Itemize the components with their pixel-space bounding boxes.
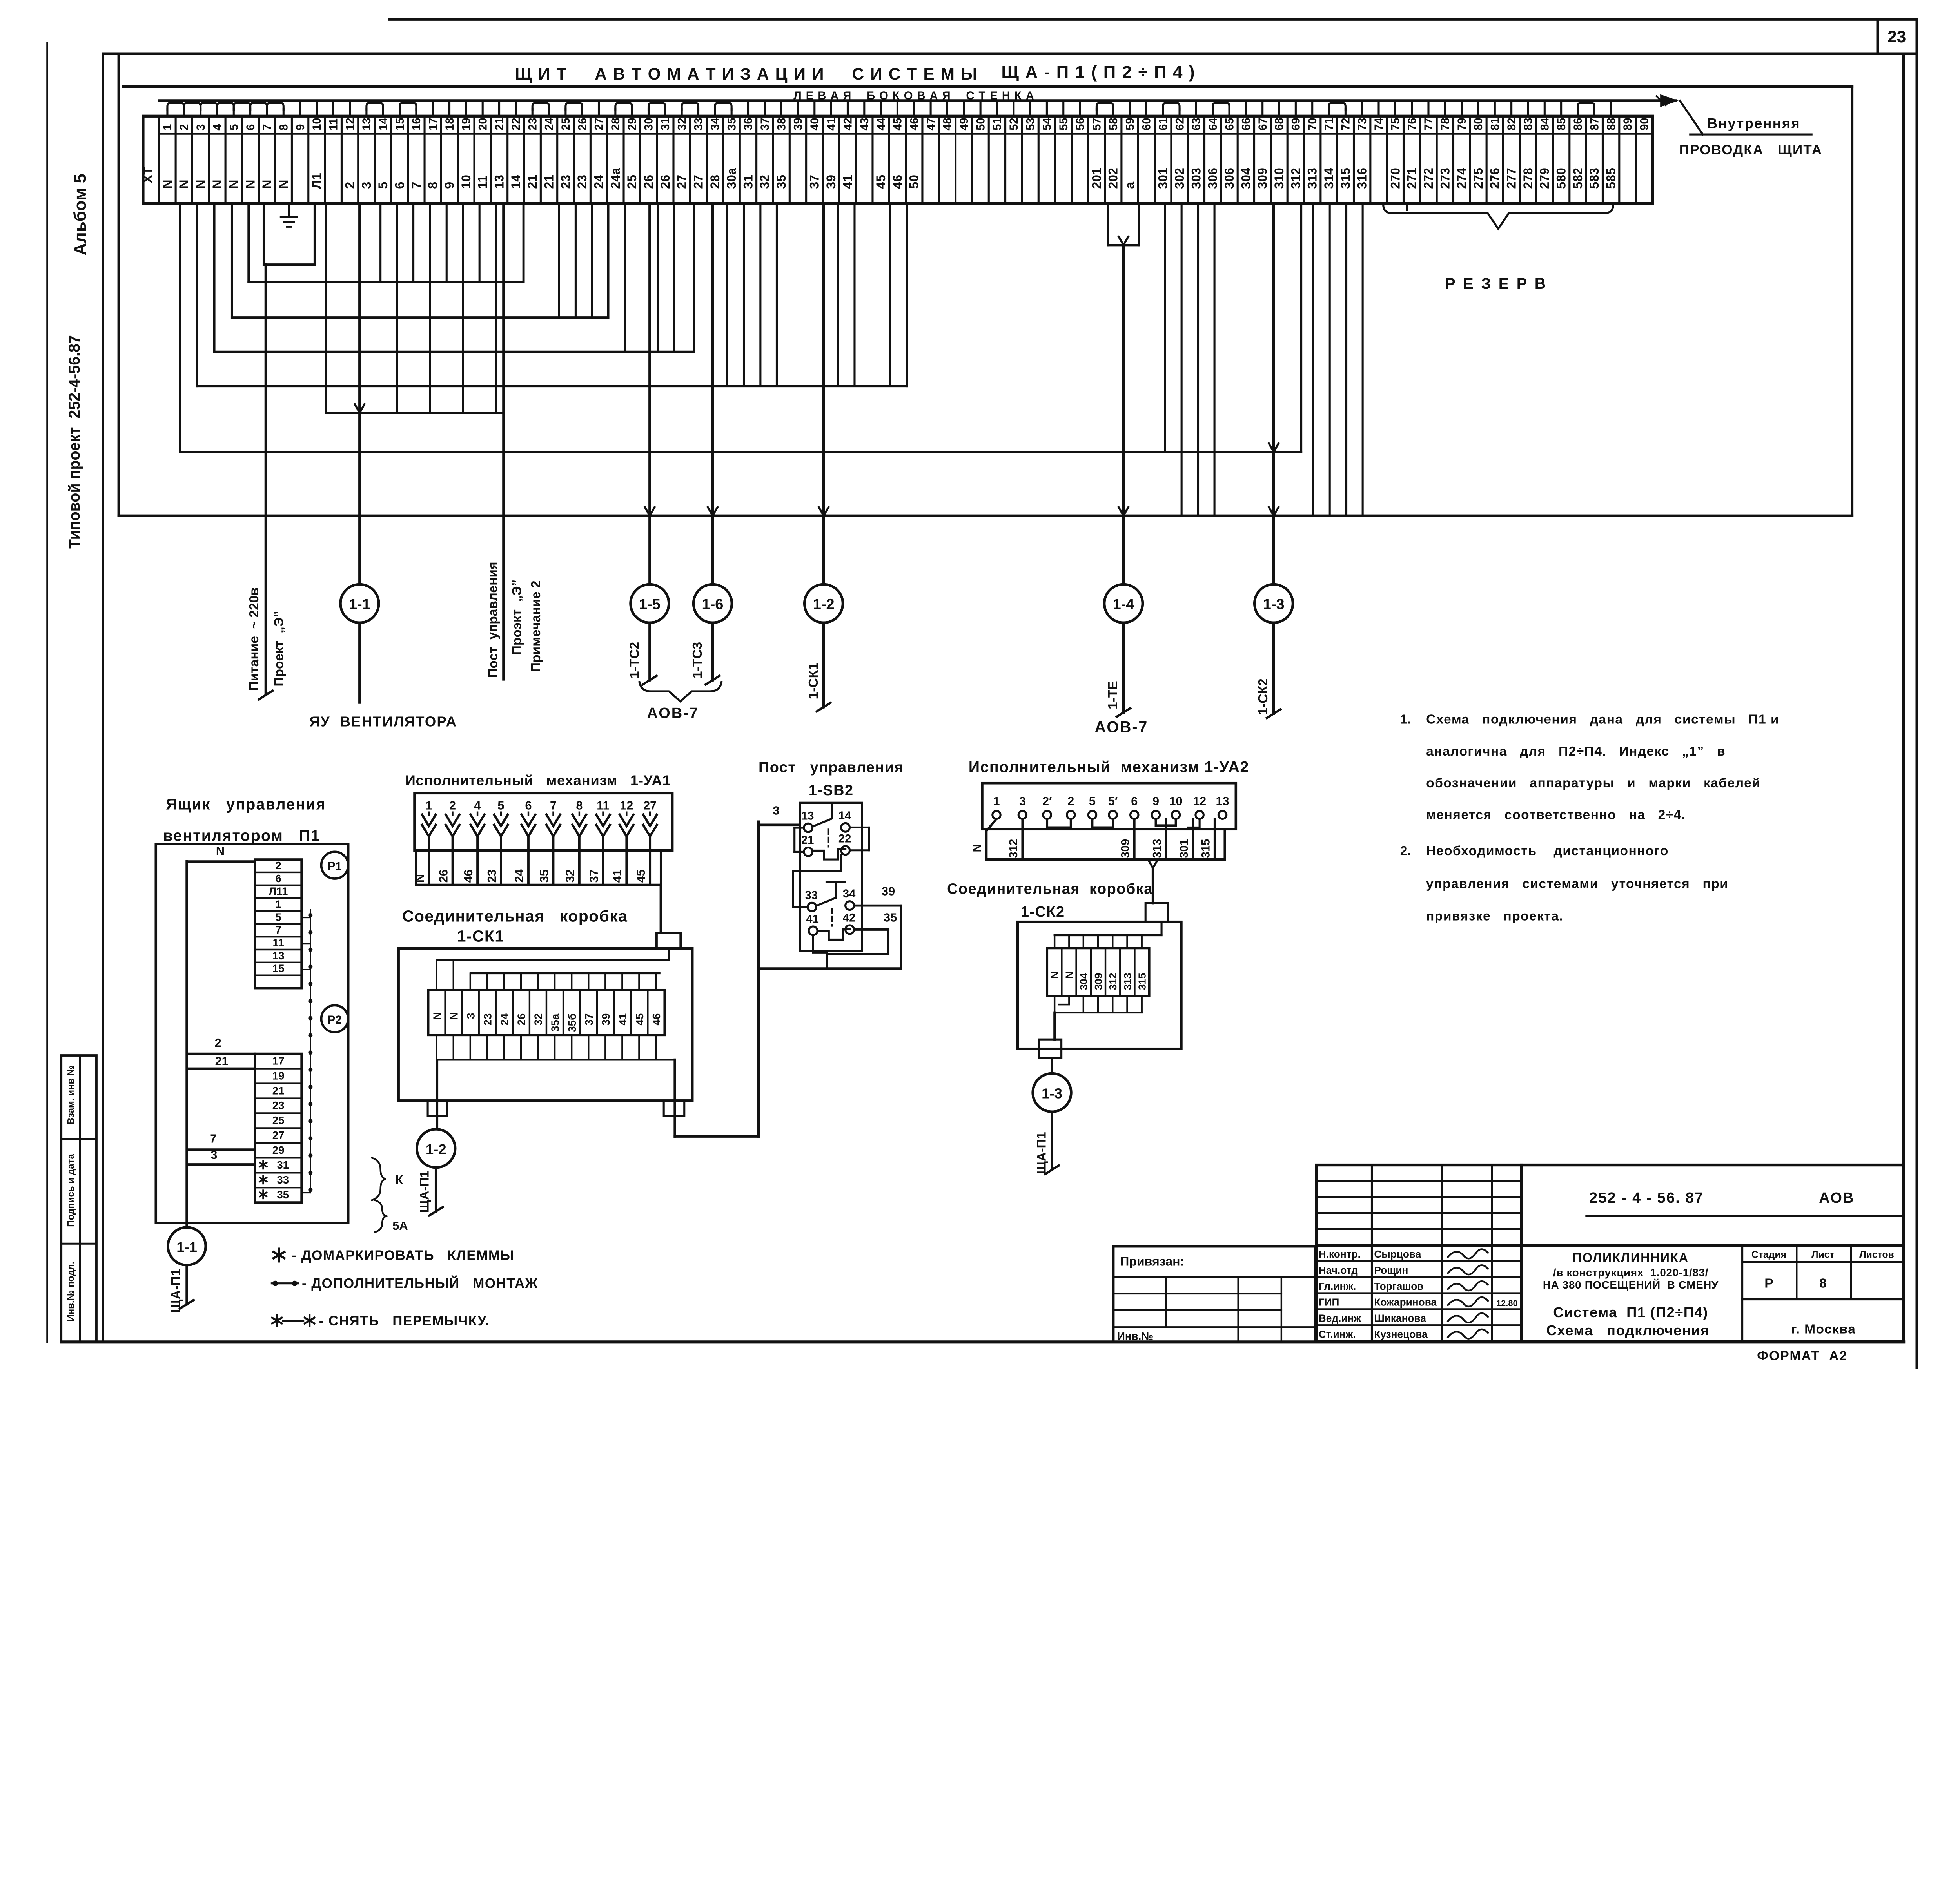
svg-text:АОВ-7: АОВ-7 <box>647 705 699 721</box>
terminal 7 <box>259 116 275 203</box>
svg-text:316: 316 <box>1355 168 1369 189</box>
title block names <box>1319 1248 1518 1340</box>
svg-text:Р Е З Е Р В: Р Е З Е Р В <box>1445 275 1547 292</box>
SB2 contact 42 <box>843 912 855 934</box>
terminal 18 <box>441 116 457 203</box>
svg-text:17: 17 <box>272 1055 285 1067</box>
wires terminals 29-32 <box>625 204 674 352</box>
svg-text:46: 46 <box>650 1013 662 1026</box>
svg-text:35: 35 <box>774 175 788 189</box>
title block stadia list listov <box>1742 1245 1904 1341</box>
label vnutrennyaya provodka <box>1679 115 1822 158</box>
label 3 <box>773 804 779 818</box>
UA2 wire 315 <box>1200 819 1215 859</box>
svg-text:1.: 1. <box>1400 712 1411 727</box>
svg-text:313: 313 <box>1122 973 1133 990</box>
svg-text:55: 55 <box>1058 118 1070 130</box>
svg-text:24: 24 <box>592 175 606 189</box>
UA2 jumper 5-5p <box>1092 819 1113 827</box>
svg-text:301: 301 <box>1178 839 1191 858</box>
svg-text:77: 77 <box>1423 118 1435 130</box>
svg-text:8: 8 <box>1819 1276 1827 1291</box>
svg-text:4: 4 <box>211 124 224 131</box>
svg-text:Проэкт „Э”: Проэкт „Э” <box>510 580 524 655</box>
svg-text:313: 313 <box>1151 839 1164 858</box>
svg-text:32: 32 <box>532 1013 544 1026</box>
UA1 wire 45 <box>634 836 650 885</box>
UA2 terminal 2′ <box>1042 794 1052 819</box>
UA2 terminal 5′ <box>1108 794 1118 819</box>
svg-text:41: 41 <box>840 175 855 189</box>
svg-text:обозначении аппаратуры и: обозначении аппаратуры и марки кабелей <box>1426 776 1760 790</box>
svg-text:N: N <box>160 179 174 189</box>
svg-text:N: N <box>971 844 984 852</box>
UA2 jumper 9-10 <box>1156 819 1176 825</box>
circle 1-6 <box>693 584 732 623</box>
UA1 wire 46 <box>462 836 477 885</box>
CK1 stubs below strip <box>437 1035 675 1060</box>
svg-text:585: 585 <box>1604 168 1618 189</box>
stamp label Podpis i data <box>65 1154 76 1227</box>
terminal 12 <box>341 116 358 203</box>
terminal 21 <box>491 116 507 203</box>
svg-text:313: 313 <box>1305 168 1319 189</box>
svg-text:N: N <box>177 179 191 189</box>
svg-text:4: 4 <box>474 799 481 812</box>
svg-text:5: 5 <box>376 182 390 189</box>
svg-text:315: 315 <box>1338 168 1352 189</box>
terminal 84 <box>1536 116 1553 203</box>
svg-text:39: 39 <box>792 118 805 130</box>
UA2 terminal 2 <box>1067 794 1075 819</box>
terminal 80 <box>1470 116 1486 203</box>
terminal 70 <box>1304 116 1321 203</box>
svg-text:Типовой проект 252-4-56.87: Типовой проект 252-4-56.87 <box>66 335 83 549</box>
svg-text:312: 312 <box>1289 168 1303 189</box>
terminal 24 <box>541 116 557 203</box>
svg-text:23: 23 <box>1887 27 1906 46</box>
terminal 68 <box>1271 116 1287 203</box>
terminal strip XT outline <box>143 116 1653 203</box>
svg-text:привязке проекта.: привязке проекта. <box>1426 909 1563 924</box>
svg-text:202: 202 <box>1106 168 1120 189</box>
svg-text:2.: 2. <box>1400 844 1411 858</box>
terminal 22 <box>508 116 524 203</box>
UA2 jumper 12 hook <box>1188 819 1200 827</box>
svg-text:Ящик управления: Ящик управления <box>166 796 326 813</box>
svg-text:271: 271 <box>1405 168 1419 189</box>
UA1 terminal 6 <box>521 799 535 836</box>
svg-text:277: 277 <box>1504 168 1519 189</box>
svg-text:583: 583 <box>1587 168 1601 189</box>
margin text Album 5 <box>71 174 90 255</box>
ground symbol <box>281 204 297 227</box>
svg-text:89: 89 <box>1622 118 1634 130</box>
wire from terminal 3 <box>196 204 199 386</box>
wires terminals 62-65 <box>1165 204 1214 516</box>
svg-text:2: 2 <box>1067 794 1074 808</box>
box yashik upravleniya outline <box>156 844 348 1223</box>
svg-text:Гл.инж.: Гл.инж. <box>1319 1280 1356 1292</box>
svg-text:34: 34 <box>709 118 722 131</box>
svg-text:45: 45 <box>874 175 888 189</box>
svg-text:22: 22 <box>838 832 851 845</box>
terminal 26 <box>574 116 590 203</box>
UA1 wire 32 <box>564 836 579 885</box>
legend domarkirovat klemmy <box>274 1248 515 1263</box>
svg-text:2: 2 <box>449 799 456 812</box>
svg-text:Стадия: Стадия <box>1751 1250 1786 1260</box>
legend snyat peremychku <box>272 1313 489 1329</box>
svg-text:90: 90 <box>1638 118 1651 130</box>
svg-text:71: 71 <box>1323 118 1336 130</box>
wires terminals 25-27 <box>559 204 592 317</box>
svg-text:26: 26 <box>576 118 589 130</box>
svg-text:312: 312 <box>1007 839 1020 858</box>
svg-text:Листов: Листов <box>1859 1250 1894 1260</box>
svg-text:Р1: Р1 <box>328 860 342 873</box>
svg-text:5: 5 <box>275 911 281 923</box>
svg-text:управления системами уточн: управления системами уточняется при <box>1426 877 1728 891</box>
svg-text:14: 14 <box>838 810 851 822</box>
svg-text:Подпись и дата: Подпись и дата <box>65 1154 76 1227</box>
cable 1-5 <box>643 204 657 685</box>
svg-text:20: 20 <box>477 118 489 130</box>
CK2 exit wire <box>1052 1013 1055 1073</box>
svg-text:Инв.№: Инв.№ <box>1117 1330 1153 1342</box>
svg-text:88: 88 <box>1605 118 1618 130</box>
terminal 3 <box>192 116 209 203</box>
svg-text:81: 81 <box>1489 118 1502 130</box>
svg-text:70: 70 <box>1307 118 1319 130</box>
terminal 50 <box>972 116 989 203</box>
panel bottom bus H9 <box>119 514 1852 517</box>
rezerv bracket <box>1383 201 1613 229</box>
box 1-CK2 <box>1018 922 1181 1049</box>
UA2 terminal 6 <box>1131 794 1138 819</box>
frame bottom border <box>61 1340 1904 1344</box>
svg-text:10: 10 <box>459 175 473 189</box>
svg-text:Привязан:: Привязан: <box>1120 1254 1184 1268</box>
svg-text:25: 25 <box>625 175 639 189</box>
svg-text:1: 1 <box>993 794 1000 808</box>
circle 1-5 <box>631 584 669 623</box>
svg-text:11: 11 <box>327 118 340 131</box>
svg-text:26: 26 <box>515 1013 528 1026</box>
svg-text:18: 18 <box>444 118 456 130</box>
svg-text:27: 27 <box>691 175 705 189</box>
SB2 contact symbol upper2 bridge <box>813 849 846 859</box>
svg-text:31: 31 <box>659 118 672 130</box>
svg-text:32: 32 <box>676 118 688 130</box>
terminal 19 <box>458 116 474 203</box>
svg-text:27: 27 <box>643 799 657 812</box>
svg-text:304: 304 <box>1078 973 1090 990</box>
svg-text:315: 315 <box>1200 839 1212 858</box>
collector H7 <box>326 204 503 413</box>
svg-text:а: а <box>1123 181 1137 189</box>
terminal block R1 rows <box>255 859 301 988</box>
svg-text:41: 41 <box>806 913 818 925</box>
margin text Tipovoy proekt <box>66 335 83 549</box>
UA1 terminal 4 <box>471 799 485 836</box>
SB2 contact 21 <box>801 834 814 856</box>
terminal strip XT label cell <box>141 116 159 203</box>
svg-text:5: 5 <box>228 124 240 131</box>
SB2 jumper 13-21 <box>795 828 804 852</box>
circle 1-2 bottom <box>417 1129 455 1167</box>
svg-text:Соединительная коробка: Соединительная коробка <box>402 907 628 925</box>
terminal 16 <box>408 116 425 203</box>
svg-text:302: 302 <box>1172 168 1187 189</box>
svg-text:46: 46 <box>908 118 921 130</box>
svg-text:ГИП: ГИП <box>1319 1296 1339 1308</box>
svg-text:74: 74 <box>1373 118 1385 131</box>
CK1 exit wire left <box>436 1060 439 1129</box>
CK2 stubs above strip <box>1054 922 1161 948</box>
svg-text:1-3: 1-3 <box>1263 596 1285 613</box>
svg-text:1-5: 1-5 <box>639 596 661 613</box>
terminal 11 <box>325 116 341 203</box>
terminal 14 <box>375 116 391 203</box>
svg-text:252 - 4 - 56. 87: 252 - 4 - 56. 87 <box>1589 1190 1704 1206</box>
svg-text:2: 2 <box>343 182 357 189</box>
wire from terminal 5 <box>230 204 234 317</box>
title block city <box>1791 1322 1856 1336</box>
legend dopolnitelny montazh <box>272 1275 538 1291</box>
svg-text:6: 6 <box>275 872 281 885</box>
svg-text:2′: 2′ <box>1042 794 1052 808</box>
svg-text:24: 24 <box>499 1013 511 1025</box>
svg-text:59: 59 <box>1124 118 1136 130</box>
svg-text:- СНЯТЬ ПЕРЕМЫЧКУ.: - СНЯТЬ ПЕРЕМЫЧКУ. <box>319 1313 490 1329</box>
svg-text:6: 6 <box>245 124 257 131</box>
UA2 terminal 9 <box>1152 794 1160 819</box>
svg-text:Пост управления: Пост управления <box>759 760 904 776</box>
svg-text:79: 79 <box>1456 118 1468 130</box>
terminal 59 <box>1122 116 1138 203</box>
svg-text:27: 27 <box>593 118 606 130</box>
terminal block R2 rows <box>255 1054 301 1203</box>
internal wiring bus line <box>160 96 1676 106</box>
wire 7 <box>187 1132 255 1150</box>
UA2 wire N <box>971 819 996 859</box>
format A2 label <box>1757 1349 1847 1363</box>
label YaU ventilyatora <box>310 714 457 730</box>
terminal 48 <box>939 116 955 203</box>
title block signature table <box>1316 1165 1521 1342</box>
svg-text:/в конструкциях 1.020-1/83/: /в конструкциях 1.020-1/83/ <box>1553 1266 1708 1278</box>
svg-text:I: I <box>1405 201 1408 214</box>
terminal 34 <box>707 116 723 203</box>
svg-text:37: 37 <box>583 1013 595 1026</box>
svg-text:N: N <box>1049 972 1060 979</box>
svg-text:- ДОПОЛНИТЕЛЬНЫЙ МОНТАЖ: - ДОПОЛНИТЕЛЬНЫЙ МОНТАЖ <box>302 1275 538 1291</box>
svg-text:26: 26 <box>641 175 655 189</box>
terminal jumper loops <box>167 103 1594 110</box>
svg-text:Схема подключения дана д: Схема подключения дана для системы П1 и <box>1426 712 1779 727</box>
title block top divider <box>1316 1244 1521 1247</box>
SB2 contact symbol lower2 bridge <box>817 929 849 939</box>
wire 3 <box>187 1148 255 1164</box>
CK1 top gland <box>657 933 681 948</box>
SB2 contact 34 <box>843 888 856 910</box>
svg-text:N: N <box>413 874 426 883</box>
title block signatures <box>1448 1249 1488 1338</box>
UA1 wire 26 <box>437 836 452 885</box>
svg-text:306: 306 <box>1206 168 1220 189</box>
collector H5 <box>214 204 694 352</box>
svg-text:N: N <box>210 179 224 189</box>
terminal 35 <box>723 116 740 203</box>
UA1 wire N <box>413 836 429 885</box>
wires terminals 71-74 <box>1313 204 1363 516</box>
svg-text:50: 50 <box>907 175 921 189</box>
svg-text:46: 46 <box>462 869 475 883</box>
title ispolnitelny mekhanizm 1-UA2 <box>969 759 1249 776</box>
svg-text:Схема подключения: Схема подключения <box>1546 1322 1709 1338</box>
svg-text:7: 7 <box>261 124 274 131</box>
svg-text:73: 73 <box>1356 118 1369 130</box>
svg-text:272: 272 <box>1421 168 1436 189</box>
svg-text:65: 65 <box>1223 118 1236 130</box>
svg-text:60: 60 <box>1141 118 1153 130</box>
title block code row <box>1521 1165 1904 1216</box>
svg-text:53: 53 <box>1024 118 1037 130</box>
SB2 jumper 22-33 <box>793 855 841 907</box>
UA2 jumper 2p-2 <box>1047 819 1071 827</box>
privyazan box <box>1113 1246 1315 1342</box>
UA2 terminal 12 <box>1193 794 1206 819</box>
svg-text:37: 37 <box>808 175 822 189</box>
cable 1-2 <box>817 204 831 711</box>
svg-text:1-3: 1-3 <box>1042 1086 1062 1102</box>
svg-text:19: 19 <box>272 1070 285 1082</box>
terminal 86 <box>1570 116 1586 203</box>
SB2 wire 41 loop <box>813 935 827 953</box>
collector H8 <box>180 204 1301 452</box>
svg-text:8: 8 <box>278 124 290 131</box>
CK1 to SB2 loop wire <box>675 822 800 1137</box>
UA1 wire 24 <box>513 836 528 885</box>
terminal 74 <box>1370 116 1387 203</box>
svg-text:35: 35 <box>277 1189 289 1201</box>
svg-text:24а: 24а <box>608 167 622 189</box>
label rezerv <box>1445 275 1547 292</box>
svg-text:11: 11 <box>597 799 609 812</box>
UA1 terminal 27 <box>643 799 657 836</box>
frame top band lines <box>103 20 1917 54</box>
svg-text:273: 273 <box>1438 168 1452 189</box>
UA2 terminal 1 <box>993 794 1000 819</box>
terminal 8 <box>275 116 292 203</box>
svg-text:310: 310 <box>1272 168 1286 189</box>
svg-text:41: 41 <box>611 869 624 883</box>
svg-text:5А: 5А <box>392 1219 408 1233</box>
svg-text:75: 75 <box>1390 118 1402 130</box>
svg-text:275: 275 <box>1471 168 1485 189</box>
UA2 terminal 3 <box>1018 794 1026 819</box>
terminal 28 <box>607 116 624 203</box>
CK2 stubs below strip <box>1054 996 1142 1012</box>
dotted additional montage line <box>301 910 312 1193</box>
svg-text:582: 582 <box>1571 168 1585 189</box>
svg-text:314: 314 <box>1322 168 1336 189</box>
svg-text:33: 33 <box>805 889 818 902</box>
terminal 17 <box>425 116 441 203</box>
svg-text:11: 11 <box>272 937 284 949</box>
svg-text:67: 67 <box>1257 118 1269 130</box>
svg-text:г. Москва: г. Москва <box>1791 1322 1856 1336</box>
svg-text:ЩА-П1: ЩА-П1 <box>417 1171 431 1213</box>
svg-text:3: 3 <box>1019 794 1026 808</box>
label 1-TE <box>1106 681 1120 709</box>
terminal 69 <box>1287 116 1304 203</box>
svg-text:11: 11 <box>475 176 490 189</box>
terminal 45 <box>889 116 906 203</box>
svg-text:23: 23 <box>559 175 573 189</box>
svg-text:45: 45 <box>633 1013 646 1026</box>
terminal 27 <box>590 116 607 203</box>
svg-text:41: 41 <box>825 118 838 130</box>
svg-text:7: 7 <box>409 182 423 189</box>
svg-text:87: 87 <box>1589 118 1601 130</box>
svg-text:6: 6 <box>1131 794 1138 808</box>
svg-text:Соединительная коробка: Соединительная коробка <box>947 881 1153 897</box>
title block system name <box>1546 1304 1709 1338</box>
svg-text:50: 50 <box>975 118 987 130</box>
terminal 62 <box>1171 116 1188 203</box>
svg-text:7: 7 <box>550 799 557 812</box>
wire from terminal 6 <box>247 204 250 282</box>
panel outline gamma <box>117 54 120 516</box>
svg-text:9: 9 <box>294 124 307 131</box>
svg-text:61: 61 <box>1157 118 1170 130</box>
terminal 66 <box>1238 116 1254 203</box>
UA1 wire 23 <box>485 836 501 885</box>
collector H4 <box>232 204 608 317</box>
title post upravleniya 1-SB2 <box>759 760 904 799</box>
wire 21 <box>187 1055 255 1069</box>
svg-text:25: 25 <box>560 118 572 130</box>
label 1-CK1 <box>806 663 821 699</box>
UA1 terminal 2 <box>446 799 459 836</box>
svg-text:21: 21 <box>215 1055 229 1068</box>
svg-text:вентилятором П1: вентилятором П1 <box>163 827 320 845</box>
svg-text:21: 21 <box>272 1084 285 1097</box>
terminal 83 <box>1520 116 1536 203</box>
terminal 82 <box>1503 116 1519 203</box>
svg-text:ЩА-П1: ЩА-П1 <box>169 1269 183 1312</box>
cable ShchA-P1 from 1-3 <box>1034 1112 1059 1174</box>
stamp column boxes <box>61 1055 96 1342</box>
UA2 bottom bus <box>986 829 1225 859</box>
svg-text:35а: 35а <box>549 1013 561 1032</box>
svg-text:27: 27 <box>675 175 689 189</box>
svg-text:меняется соответственно на: меняется соответственно на 2÷4. <box>1426 808 1686 822</box>
svg-text:43: 43 <box>858 118 871 130</box>
UA2 wire 312 <box>1007 819 1022 859</box>
svg-text:15: 15 <box>272 963 285 975</box>
svg-text:3: 3 <box>195 124 207 131</box>
svg-text:201: 201 <box>1089 168 1103 189</box>
svg-text:64: 64 <box>1207 118 1220 131</box>
terminal 47 <box>922 116 939 203</box>
SB2 contact 41 <box>806 913 818 935</box>
wire 2 <box>187 1036 255 1054</box>
cable ShchA-P1 from 1-2 <box>417 1167 443 1216</box>
svg-text:46: 46 <box>890 175 904 189</box>
